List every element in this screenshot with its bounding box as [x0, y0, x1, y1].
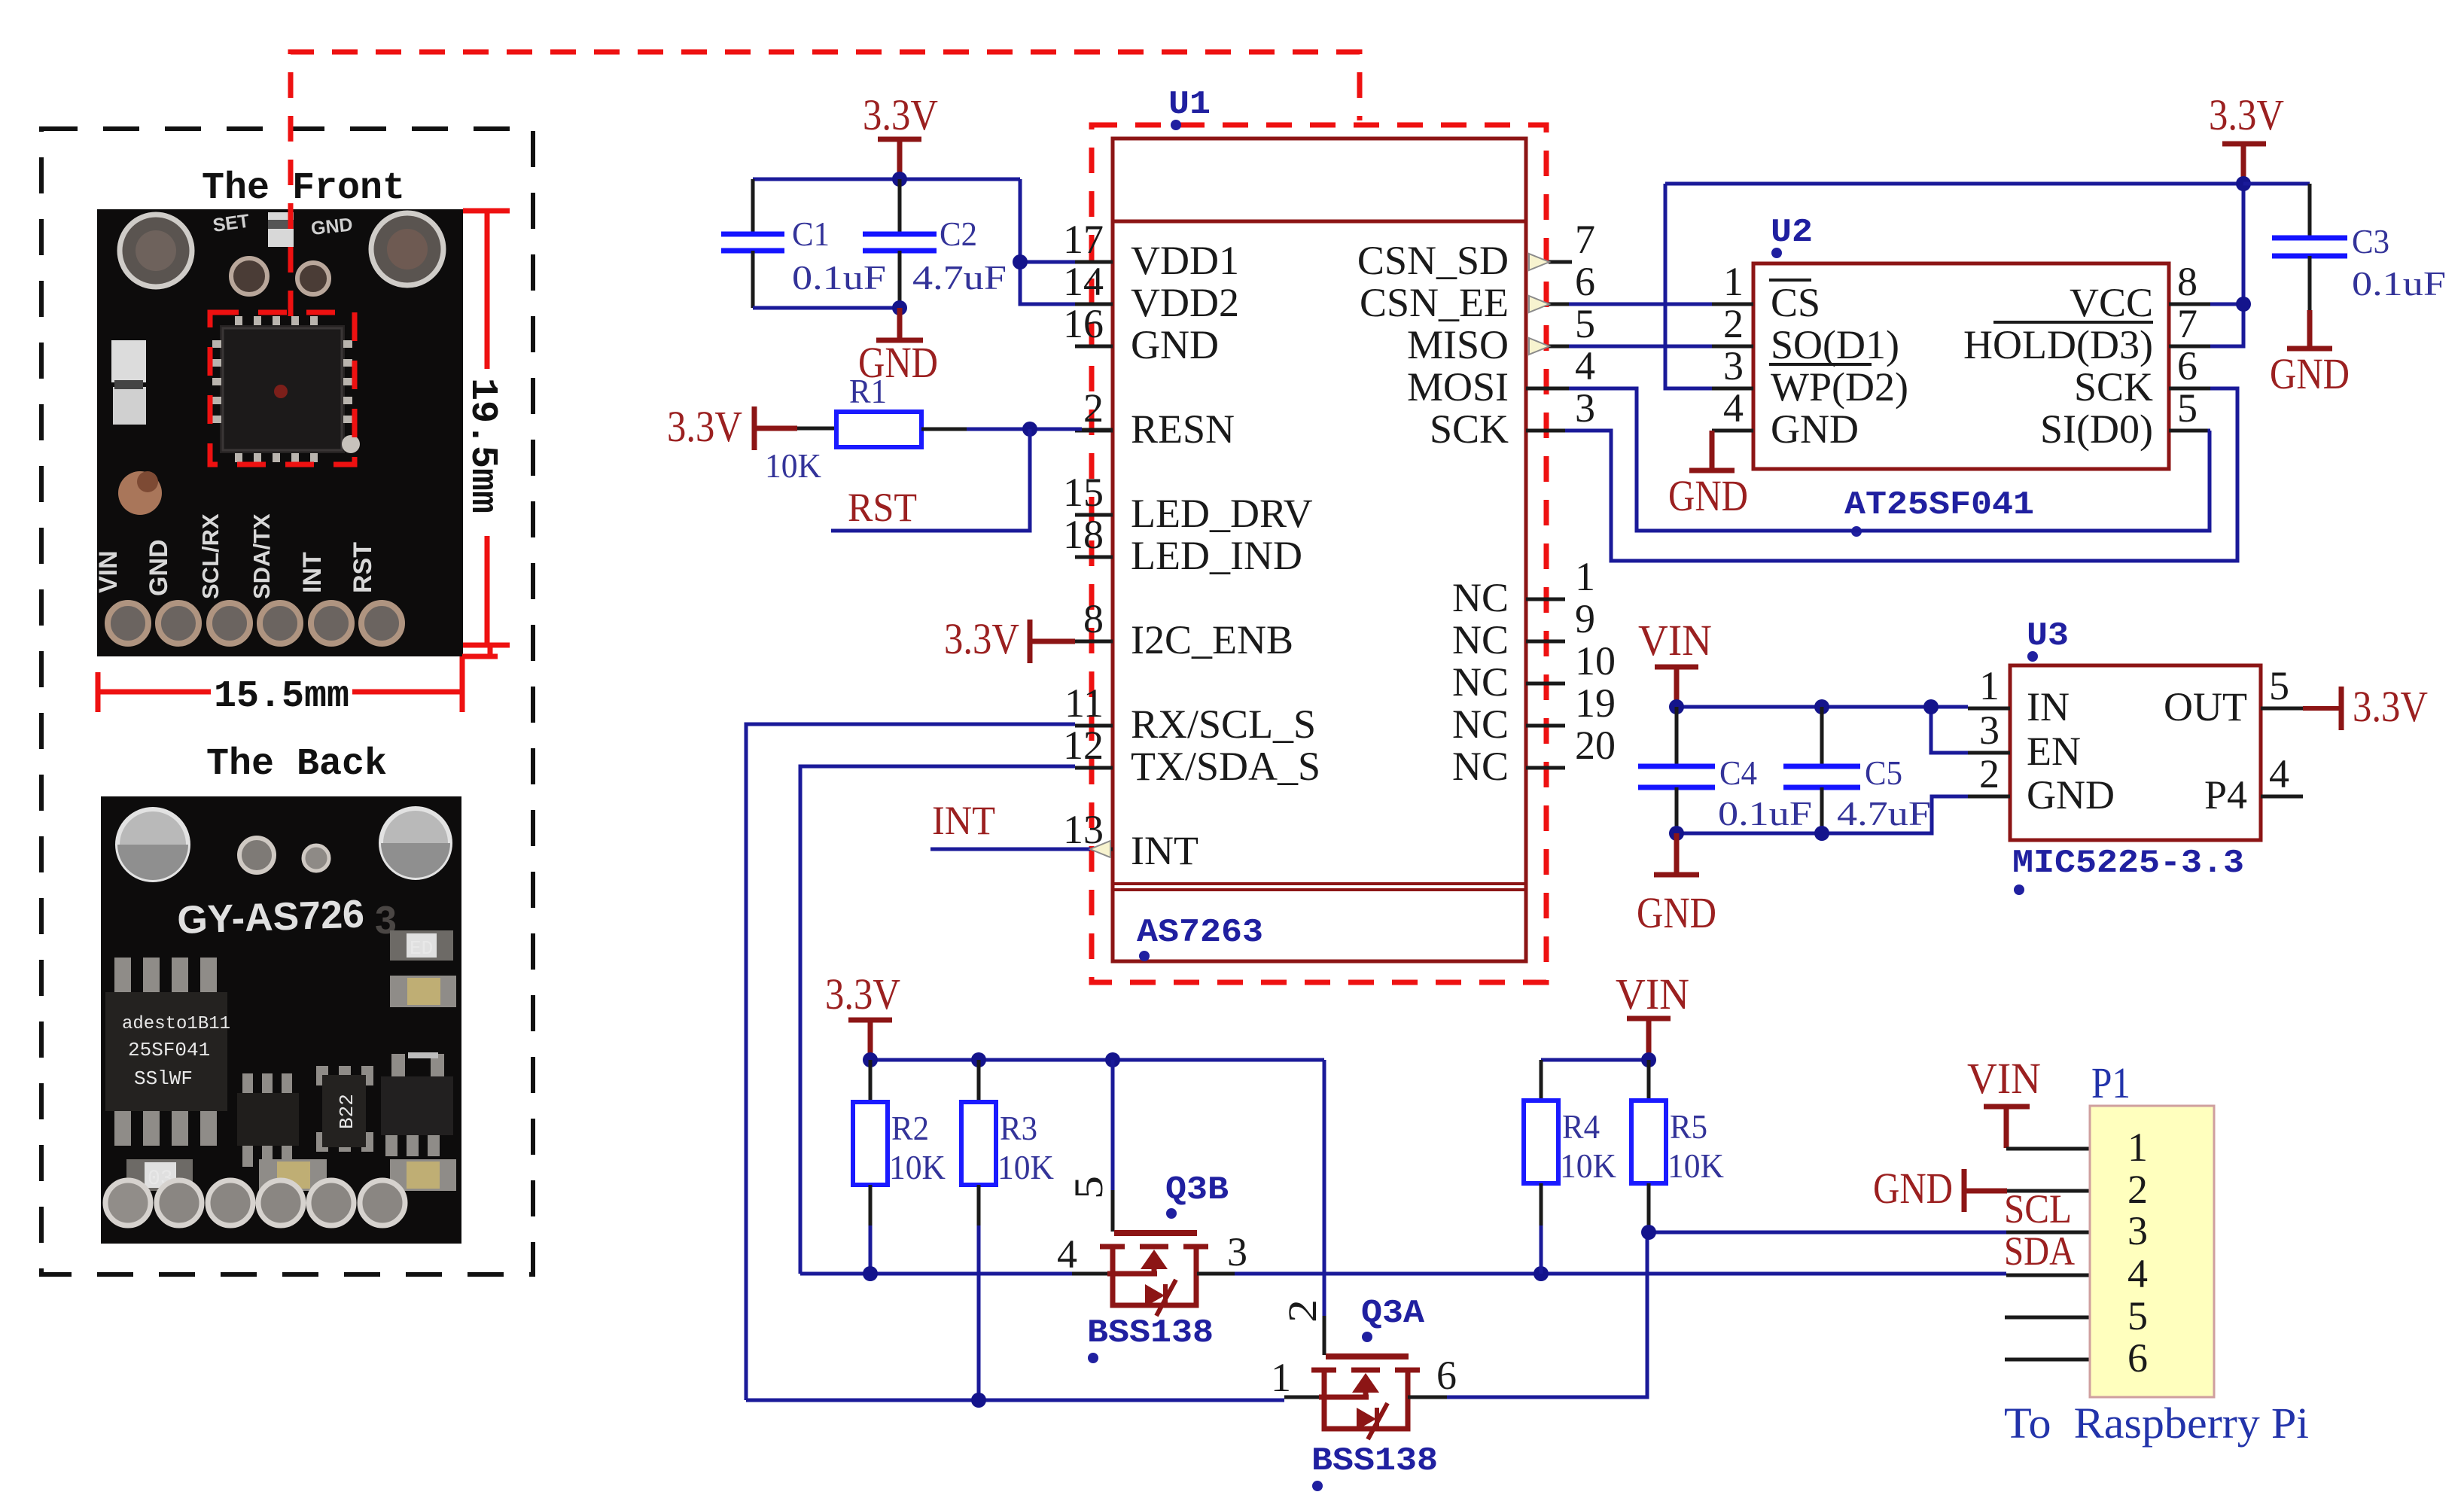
U2 left pin numbers — [1723, 259, 1744, 431]
power VIN above C4 — [1638, 616, 1712, 707]
svg-text:LED_DRV: LED_DRV — [1131, 491, 1313, 536]
U1 left pin names — [1131, 238, 1320, 873]
svg-text:5: 5 — [2177, 385, 2197, 431]
wire 3.3V rail to gates — [863, 1052, 1324, 1067]
ground below C3 — [2270, 310, 2350, 398]
sensor red dashed box on photo — [210, 312, 355, 464]
svg-text:3.3V: 3.3V — [2353, 682, 2428, 731]
svg-text:GND: GND — [2027, 772, 2115, 818]
U1 right pin numbers — [1575, 217, 1616, 768]
wire INT with output arrow pin 13 — [930, 841, 1113, 857]
svg-text:GND: GND — [1668, 471, 1748, 520]
svg-text:10K: 10K — [889, 1148, 946, 1186]
Q3A part number BSS138 — [1311, 1442, 1438, 1491]
svg-text:OUT: OUT — [2164, 684, 2247, 729]
svg-text:0.1uF: 0.1uF — [2352, 264, 2446, 303]
svg-text:1: 1 — [2127, 1125, 2148, 1170]
svg-text:10: 10 — [1575, 638, 1616, 684]
resistor R1 10K — [765, 372, 967, 485]
svg-text:ED: ED — [410, 937, 433, 960]
P1 pin 5 and 6 stubs — [2005, 1317, 2090, 1359]
label The Back — [206, 743, 387, 786]
svg-text:GND: GND — [2270, 349, 2350, 398]
power VIN at P1 pin 1 — [1967, 1054, 2090, 1149]
svg-text:10K: 10K — [765, 446, 821, 485]
svg-text:0.1uF: 0.1uF — [1718, 794, 1812, 833]
svg-text:R4: R4 — [1562, 1107, 1600, 1146]
svg-text:C3: C3 — [2352, 222, 2389, 260]
capacitor C2 — [863, 179, 1007, 308]
svg-text:SCL: SCL — [2004, 1186, 2072, 1232]
wire RX/SCL_S to bottom — [746, 724, 1075, 1400]
wire RST stub — [831, 429, 1030, 531]
svg-text:SO(D1): SO(D1) — [1771, 322, 1899, 367]
svg-text:VCC: VCC — [2070, 280, 2153, 325]
svg-text:2: 2 — [1723, 301, 1744, 346]
svg-text:6: 6 — [1436, 1353, 1457, 1398]
svg-text:NC: NC — [1452, 659, 1509, 705]
svg-text:IN: IN — [2027, 684, 2070, 729]
svg-text:MISO: MISO — [1407, 322, 1509, 367]
wire RESN to pin 2 — [967, 422, 1113, 437]
svg-text:4: 4 — [1723, 385, 1744, 431]
svg-text:MOSI: MOSI — [1407, 364, 1509, 410]
wire SCL line — [746, 1232, 1647, 1408]
svg-text:The Front: The Front — [202, 167, 405, 210]
U3 left pin numbers — [1979, 663, 2000, 796]
U2 part number AT25SF041 — [1844, 486, 2034, 537]
svg-text:I2C_ENB: I2C_ENB — [1131, 617, 1293, 662]
svg-text:3.3V: 3.3V — [2209, 90, 2284, 139]
label To Raspberry Pi — [2004, 1399, 2309, 1448]
svg-text:GY-AS726: GY-AS726 — [176, 892, 364, 942]
U3 right pin numbers — [2269, 663, 2289, 796]
capacitor C3 — [2243, 184, 2446, 310]
svg-text:1: 1 — [1575, 554, 1595, 599]
svg-text:10K: 10K — [1560, 1146, 1616, 1185]
svg-text:2: 2 — [2127, 1167, 2148, 1212]
svg-text:R1: R1 — [849, 372, 887, 410]
svg-text:EN: EN — [2027, 729, 2081, 774]
svg-text:17: 17 — [1063, 217, 1104, 262]
U1 right pin output arrows pins 7 6 5 — [1529, 254, 1549, 355]
svg-text:RST: RST — [848, 485, 917, 530]
svg-text:9: 9 — [1575, 596, 1595, 641]
U1 right pin stubs — [1526, 262, 1572, 768]
svg-text:6: 6 — [2177, 343, 2197, 388]
U2 right pin stubs — [2169, 304, 2210, 431]
dimension 19.5mm — [461, 211, 510, 645]
svg-text:B22: B22 — [336, 1094, 358, 1129]
svg-text:CSN_EE: CSN_EE — [1360, 280, 1509, 325]
red dashed link line from sensor to U1 — [291, 52, 1360, 316]
svg-text:6: 6 — [1575, 259, 1595, 304]
ground at U2 pin 4 — [1668, 431, 1748, 520]
ground at P1 pin 2 — [1873, 1164, 2090, 1213]
U3 right pin stubs — [2261, 708, 2303, 796]
svg-text:VIN: VIN — [94, 550, 123, 593]
svg-text:INT: INT — [1131, 828, 1198, 873]
svg-text:4: 4 — [2127, 1251, 2148, 1296]
svg-text:SCL/RX: SCL/RX — [197, 513, 224, 599]
svg-text:GND: GND — [1131, 322, 1219, 367]
svg-text:P1: P1 — [2091, 1058, 2130, 1107]
svg-text:1: 1 — [1979, 663, 2000, 708]
Q3B part number BSS138 — [1087, 1314, 1214, 1363]
svg-text:19: 19 — [1575, 680, 1616, 726]
svg-text:NC: NC — [1452, 702, 1509, 747]
svg-text:4: 4 — [1575, 343, 1595, 388]
svg-text:To Raspberry Pi: To Raspberry Pi — [2004, 1399, 2309, 1448]
transistor Q3B BSS138 — [1100, 1233, 1208, 1316]
U1 left pin numbers — [1063, 217, 1104, 852]
wire 3.3V top rail to WP — [1665, 184, 2243, 388]
svg-text:P4: P4 — [2204, 772, 2247, 818]
svg-text:C4: C4 — [1719, 754, 1757, 792]
svg-text:NC: NC — [1452, 617, 1509, 662]
power 3.3V above C2 — [863, 90, 938, 179]
Q3B refdes label — [1165, 1171, 1229, 1219]
svg-text:3: 3 — [1723, 343, 1744, 388]
svg-text:15.5mm: 15.5mm — [214, 675, 349, 718]
svg-text:3.3V: 3.3V — [944, 614, 1019, 663]
svg-text:8: 8 — [1083, 596, 1104, 641]
svg-text:5: 5 — [2127, 1293, 2148, 1338]
svg-text:2: 2 — [1979, 751, 2000, 796]
connector P1 body — [2090, 1106, 2214, 1397]
svg-text:4.7uF: 4.7uF — [1837, 794, 1931, 833]
U3 refdes label — [2027, 617, 2069, 662]
svg-text:C5: C5 — [1865, 754, 1902, 792]
svg-text:3: 3 — [1575, 385, 1595, 431]
ground below C2 — [858, 308, 938, 387]
svg-text:R3: R3 — [1000, 1109, 1037, 1147]
U2 right pin numbers — [2177, 259, 2197, 431]
wire VIN rail above R4 R5 — [1541, 1052, 1656, 1067]
back photo PCB — [101, 796, 461, 1244]
capacitor C4 — [1638, 707, 1812, 833]
svg-text:BSS138: BSS138 — [1087, 1314, 1214, 1352]
ground below C4 — [1637, 833, 1716, 937]
wire Q3A gate pin 2 — [1280, 1060, 1325, 1355]
svg-text:12: 12 — [1063, 723, 1104, 768]
wire U1 MISO to U2 SO — [1569, 345, 1712, 349]
svg-text:SSlWF: SSlWF — [134, 1067, 193, 1090]
svg-text:U3: U3 — [2027, 617, 2069, 655]
svg-text:25SF041: 25SF041 — [128, 1039, 210, 1061]
svg-text:VIN: VIN — [1967, 1054, 2041, 1103]
svg-text:INT: INT — [932, 798, 995, 843]
svg-text:GND: GND — [1771, 406, 1859, 452]
Q3A pin numbers 1 and 6 — [1271, 1353, 1457, 1400]
svg-text:4: 4 — [1057, 1232, 1077, 1277]
capacitor C1 — [721, 179, 886, 308]
svg-text:SCK: SCK — [2074, 364, 2153, 410]
svg-text:20: 20 — [1575, 723, 1616, 768]
U3 pin names — [2027, 684, 2115, 818]
svg-text:BSS138: BSS138 — [1311, 1442, 1438, 1480]
wire VIN rail to U3 IN and EN — [1669, 699, 1968, 753]
svg-text:AS7263: AS7263 — [1137, 914, 1263, 951]
svg-text:VDD1: VDD1 — [1131, 238, 1239, 283]
U3 left pin stubs — [1968, 708, 2010, 796]
wire U1 CSN_EE to U2 CS — [1569, 303, 1712, 306]
resistor R3 10K — [961, 1060, 1054, 1400]
label The Front — [202, 167, 405, 210]
svg-text:2: 2 — [1280, 1299, 1325, 1323]
svg-text:18: 18 — [1063, 512, 1104, 557]
svg-text:7: 7 — [2177, 301, 2197, 346]
svg-text:15: 15 — [1063, 470, 1104, 515]
svg-text:SCK: SCK — [1430, 406, 1509, 452]
svg-text:SI(D0): SI(D0) — [2040, 406, 2153, 452]
svg-text:Q3B: Q3B — [1165, 1171, 1229, 1209]
svg-text:RESN: RESN — [1131, 406, 1235, 452]
red dashed box around U1 — [1092, 125, 1546, 982]
svg-text:1: 1 — [1271, 1355, 1291, 1400]
wire SCL to P1 pin 3 — [1641, 1225, 2006, 1240]
node VDD junction dots — [892, 172, 1028, 269]
svg-text:HOLD(D3): HOLD(D3) — [1963, 322, 2153, 367]
svg-text:GND: GND — [1873, 1164, 1953, 1213]
svg-text:14: 14 — [1063, 259, 1104, 304]
svg-text:5: 5 — [1066, 1176, 1111, 1199]
svg-text:2: 2 — [1083, 385, 1104, 431]
svg-text:C2: C2 — [940, 215, 977, 253]
Q3B pin numbers 4 and 3 — [1057, 1229, 1247, 1277]
wire cap ground rail — [753, 300, 907, 315]
svg-text:11: 11 — [1064, 680, 1104, 726]
svg-text:R5: R5 — [1670, 1107, 1707, 1146]
svg-text:NC: NC — [1452, 744, 1509, 789]
svg-text:The Back: The Back — [206, 743, 387, 786]
resistor R2 10K — [853, 1060, 946, 1274]
Q3A refdes label — [1361, 1295, 1425, 1342]
svg-text:16: 16 — [1063, 301, 1104, 346]
svg-text:AT25SF041: AT25SF041 — [1844, 486, 2034, 524]
power VIN above R5 — [1616, 970, 1689, 1060]
wire TX/SDA_S to bottom — [800, 766, 1075, 1274]
U1 right pin names — [1357, 238, 1509, 789]
power 3.3V at R1 — [667, 402, 797, 451]
svg-text:LED_IND: LED_IND — [1131, 533, 1302, 578]
resistor R5 10K — [1631, 1060, 1724, 1232]
svg-text:4.7uF: 4.7uF — [912, 258, 1007, 297]
wire Q3B gate pin 5 — [1066, 1060, 1113, 1232]
svg-text:5: 5 — [1575, 301, 1595, 346]
svg-text:MIC5225-3.3: MIC5225-3.3 — [2012, 845, 2244, 882]
svg-text:3.3V: 3.3V — [825, 970, 900, 1018]
svg-text:TX/SDA_S: TX/SDA_S — [1131, 744, 1320, 789]
svg-text:19.5mm: 19.5mm — [461, 378, 504, 513]
svg-text:GND: GND — [1637, 888, 1716, 937]
resistor R4 10K — [1524, 1060, 1616, 1274]
svg-text:INT: INT — [298, 552, 327, 593]
svg-text:3.3V: 3.3V — [863, 90, 938, 139]
svg-text:3: 3 — [2127, 1208, 2148, 1253]
P1 refdes label — [2091, 1058, 2130, 1107]
svg-text:R2: R2 — [891, 1109, 929, 1147]
svg-text:10K: 10K — [1668, 1146, 1724, 1185]
svg-text:3: 3 — [1227, 1229, 1247, 1274]
power 3.3V above R2 — [825, 970, 900, 1060]
svg-text:5: 5 — [2269, 663, 2289, 708]
power 3.3V at I2C_ENB — [944, 614, 1075, 663]
wire C4 C5 ground rail to U3 GND — [1669, 796, 1968, 841]
svg-text:WP(D2): WP(D2) — [1771, 364, 1908, 410]
dimension 15.5mm — [98, 645, 498, 718]
transistor Q3A BSS138 — [1311, 1356, 1420, 1439]
net label SCL — [2004, 1186, 2090, 1232]
svg-text:VIN: VIN — [1638, 616, 1712, 665]
wire VCC and HOLD to 3.3V — [2210, 176, 2251, 346]
U2 pin names — [1769, 280, 1908, 452]
svg-text:GND: GND — [310, 214, 354, 239]
svg-text:VIN: VIN — [1616, 970, 1689, 1018]
svg-text:3: 3 — [1979, 708, 2000, 753]
svg-text:CS: CS — [1771, 280, 1820, 325]
svg-text:VDD2: VDD2 — [1131, 280, 1239, 325]
power 3.3V top right — [2209, 90, 2284, 184]
svg-text:4: 4 — [2269, 751, 2289, 796]
U1 left pin stubs — [1075, 262, 1113, 768]
svg-text:NC: NC — [1452, 575, 1509, 620]
net label SDA — [2004, 1229, 2090, 1275]
svg-text:Q3A: Q3A — [1361, 1295, 1425, 1332]
svg-text:C1: C1 — [792, 215, 830, 253]
svg-text:U1: U1 — [1168, 86, 1211, 123]
U2 left pin stubs — [1712, 304, 1753, 431]
U1 part number AS7263 — [1137, 914, 1263, 961]
net label RST — [848, 485, 917, 530]
svg-text:SDA/TX: SDA/TX — [248, 513, 275, 599]
wire SDA line — [800, 1266, 2006, 1281]
wire U1 MOSI to U2 SI — [1569, 388, 2210, 531]
flash memory U2 AT25SF041 body — [1753, 263, 2169, 469]
regulator U3 MIC5225 body — [2010, 665, 2261, 840]
op-amp U1 AS7263 body — [1113, 139, 1526, 961]
svg-text:1: 1 — [1723, 259, 1744, 304]
svg-text:10K: 10K — [997, 1148, 1054, 1186]
svg-text:GND: GND — [145, 539, 173, 596]
power 3.3V at U3 OUT — [2303, 682, 2428, 731]
net label INT — [932, 798, 995, 843]
U3 part number MIC5225-3.3 — [2012, 845, 2244, 895]
U2 refdes label — [1771, 214, 1813, 258]
module boundary black dashed box — [41, 129, 533, 1274]
P1 pin numbers — [2127, 1125, 2148, 1381]
capacitor C5 — [1783, 707, 1931, 833]
svg-text:RX/SCL_S: RX/SCL_S — [1131, 702, 1316, 747]
front photo PCB — [94, 209, 463, 656]
svg-text:RST: RST — [349, 542, 377, 593]
svg-text:U2: U2 — [1771, 214, 1813, 251]
svg-text:7: 7 — [1575, 217, 1595, 262]
svg-text:3.3V: 3.3V — [667, 402, 742, 451]
wire 3.3V rail to VDD — [753, 179, 1075, 304]
wire U1 SCK to U2 SCK — [1565, 388, 2237, 561]
svg-text:8: 8 — [2177, 259, 2197, 304]
svg-text:0.1uF: 0.1uF — [792, 258, 886, 297]
svg-text:6: 6 — [2127, 1335, 2148, 1381]
U1 refdes label — [1168, 86, 1211, 130]
svg-text:CSN_SD: CSN_SD — [1357, 238, 1509, 283]
svg-text:SDA: SDA — [2004, 1229, 2075, 1274]
svg-text:adesto1B11: adesto1B11 — [122, 1014, 230, 1034]
